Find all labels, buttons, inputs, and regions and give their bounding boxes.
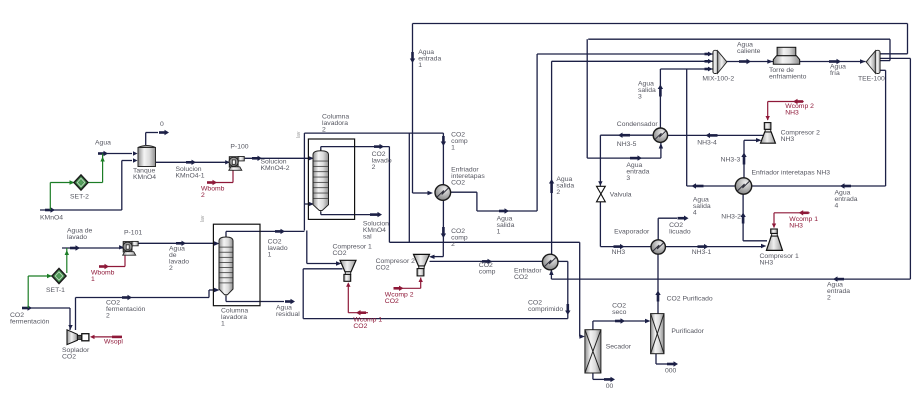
svg-text:2: 2 — [372, 164, 376, 171]
svg-text:Enfriador interetapas NH3: Enfriador interetapas NH3 — [752, 170, 831, 177]
svg-text:2: 2 — [451, 241, 455, 248]
svg-text:KMnO4-1: KMnO4-1 — [176, 173, 205, 180]
svg-text:KMnO4: KMnO4 — [40, 215, 63, 222]
svg-text:NH3: NH3 — [785, 110, 799, 117]
svg-text:KMnO4: KMnO4 — [133, 174, 156, 181]
svg-text:3: 3 — [638, 94, 642, 101]
svg-text:lav: lav — [200, 215, 206, 222]
svg-text:NH3-4: NH3-4 — [697, 140, 717, 147]
svg-text:Purificador: Purificador — [671, 328, 704, 335]
svg-text:CO2: CO2 — [514, 274, 528, 281]
svg-text:Condensador: Condensador — [617, 121, 659, 128]
svg-text:seco: seco — [612, 309, 627, 316]
svg-text:NH3: NH3 — [789, 223, 803, 230]
svg-text:enfriamiento: enfriamiento — [769, 74, 807, 81]
svg-text:CO2 Purificado: CO2 Purificado — [667, 296, 713, 303]
svg-text:2: 2 — [322, 127, 326, 134]
svg-text:4: 4 — [693, 210, 697, 217]
svg-text:TEE-100: TEE-100 — [858, 76, 885, 83]
svg-text:000: 000 — [665, 368, 677, 375]
svg-text:comprimido: comprimido — [528, 306, 563, 313]
svg-text:lav: lav — [296, 131, 302, 138]
svg-text:lavadora: lavadora — [221, 314, 247, 321]
svg-text:CO2: CO2 — [385, 298, 399, 305]
svg-text:2: 2 — [169, 265, 173, 272]
svg-text:CO2: CO2 — [62, 354, 76, 361]
svg-text:SET-1: SET-1 — [46, 287, 65, 294]
svg-text:SET-2: SET-2 — [70, 194, 89, 201]
svg-text:lavadora: lavadora — [322, 120, 348, 127]
svg-text:fría: fría — [830, 70, 840, 77]
svg-text:NH3-1: NH3-1 — [692, 249, 712, 256]
svg-text:2: 2 — [106, 313, 110, 320]
svg-text:2: 2 — [827, 295, 831, 302]
svg-text:NH3-2: NH3-2 — [721, 214, 741, 221]
svg-text:fermentación: fermentación — [10, 319, 50, 326]
svg-text:2: 2 — [556, 189, 560, 196]
svg-text:sal: sal — [363, 234, 372, 241]
svg-text:Evaporador: Evaporador — [614, 229, 650, 236]
svg-text:CO2: CO2 — [376, 265, 390, 272]
svg-text:1: 1 — [268, 252, 272, 259]
svg-text:NH3-5: NH3-5 — [617, 141, 637, 148]
svg-text:CO2: CO2 — [353, 323, 367, 330]
svg-text:licuado: licuado — [669, 229, 691, 236]
svg-text:P-100: P-100 — [230, 144, 248, 151]
svg-text:MIX-100-2: MIX-100-2 — [702, 76, 734, 83]
svg-text:1: 1 — [221, 321, 225, 328]
svg-text:CO2: CO2 — [451, 180, 465, 187]
svg-text:1: 1 — [91, 276, 95, 283]
svg-text:Wsopl: Wsopl — [104, 339, 123, 346]
svg-text:1: 1 — [418, 62, 422, 69]
svg-text:caliente: caliente — [737, 48, 761, 55]
svg-text:lavado: lavado — [67, 234, 87, 241]
svg-text:fermentación: fermentación — [106, 306, 146, 313]
svg-text:3: 3 — [626, 175, 630, 182]
svg-text:1: 1 — [451, 145, 455, 152]
svg-text:NH3-3: NH3-3 — [721, 157, 741, 164]
svg-text:1: 1 — [497, 229, 501, 236]
svg-text:00: 00 — [606, 383, 614, 390]
svg-text:NH3: NH3 — [612, 249, 626, 256]
svg-text:residual: residual — [276, 311, 300, 318]
svg-text:KMnO4-2: KMnO4-2 — [261, 165, 290, 172]
svg-text:NH3: NH3 — [760, 260, 774, 267]
svg-text:Secador: Secador — [606, 344, 632, 351]
svg-text:2: 2 — [201, 192, 205, 199]
svg-text:P-101: P-101 — [124, 230, 142, 237]
svg-text:NH3: NH3 — [781, 136, 795, 143]
svg-text:comp: comp — [479, 269, 496, 276]
svg-text:0: 0 — [160, 121, 164, 128]
svg-text:Agua: Agua — [95, 140, 111, 147]
svg-text:4: 4 — [835, 203, 839, 210]
svg-text:Valvula: Valvula — [610, 192, 632, 199]
svg-text:CO2: CO2 — [333, 250, 347, 257]
